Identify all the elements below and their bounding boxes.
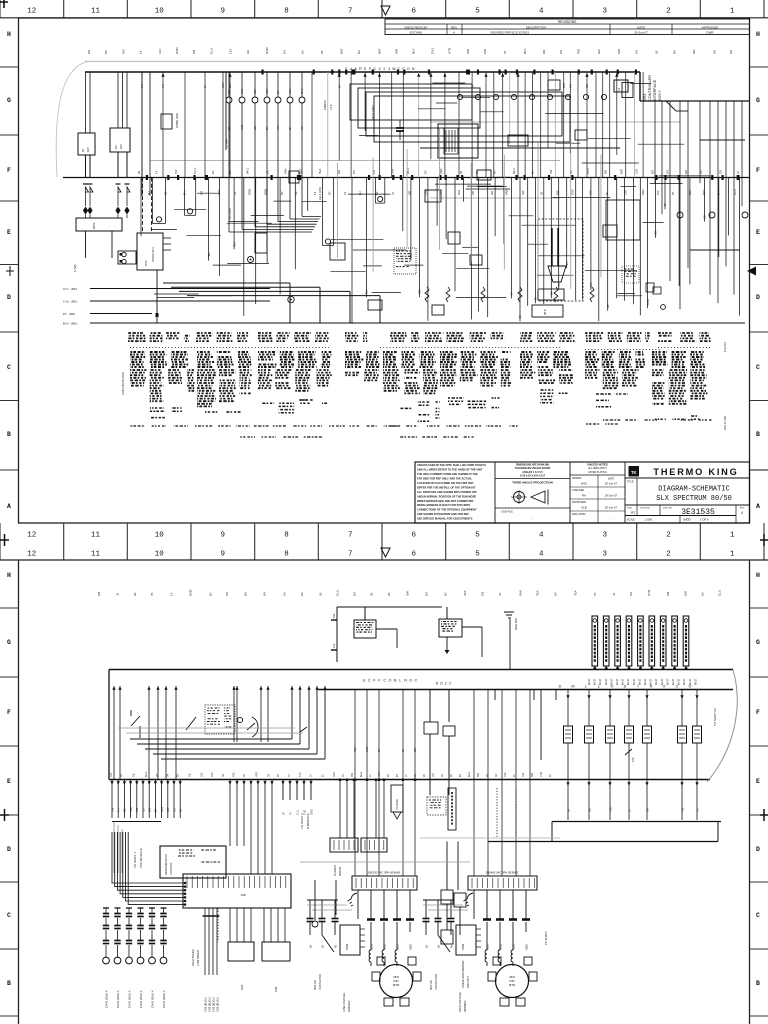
svg-text:O: O <box>409 679 412 683</box>
svg-text:5: 5 <box>475 551 480 559</box>
svg-text:CH3 (BLK) 2: CH3 (BLK) 2 <box>203 997 207 1012</box>
svg-text:X.XX 0.25 X.XXX 0.127: X.XX 0.25 X.XXX 0.127 <box>520 474 546 477</box>
svg-text:RLY: RLY <box>86 147 90 152</box>
svg-text:FAN: FAN <box>161 807 164 812</box>
svg-text:8A-2: 8A-2 <box>512 168 516 174</box>
svg-text:7: 7 <box>348 551 353 559</box>
svg-text:14: 14 <box>313 191 317 195</box>
svg-text:UNLESS NOTED: UNLESS NOTED <box>587 463 607 467</box>
svg-text:7EA: 7EA <box>130 807 133 812</box>
svg-text:CH41 (BLK) 4: CH41 (BLK) 4 <box>104 990 108 1008</box>
svg-text:SCALE: SCALE <box>627 519 635 522</box>
svg-text:380/460 VAC 3PH 50/60HZ: 380/460 VAC 3PH 50/60HZ <box>486 871 519 875</box>
svg-text:8A-27: 8A-27 <box>655 678 658 685</box>
svg-text:DWG APPD: DWG APPD <box>572 513 586 516</box>
svg-text:SW: SW <box>521 190 525 195</box>
svg-text:CB: CB <box>142 808 145 812</box>
svg-text:G: G <box>7 639 11 646</box>
svg-text:7EA: 7EA <box>609 807 612 812</box>
svg-text:A: A <box>453 31 455 35</box>
svg-text:MOTOR: MOTOR <box>339 867 342 876</box>
svg-text:PH: PH <box>569 84 573 88</box>
svg-text:12V: 12V <box>158 49 162 54</box>
svg-text:29: 29 <box>459 170 463 174</box>
svg-text:SEE SERVICE MANUAL FOR ADJUSTM: SEE SERVICE MANUAL FOR ADJUSTMENTS <box>417 517 473 521</box>
svg-text:P7A: P7A <box>144 260 148 266</box>
svg-text:SIZE: SIZE <box>627 508 632 510</box>
svg-text:PH: PH <box>559 50 563 54</box>
svg-text:F: F <box>7 709 11 716</box>
svg-text:29-Jun-07: 29-Jun-07 <box>605 494 618 498</box>
svg-text:CONTROLLER: CONTROLLER <box>648 75 652 101</box>
svg-text:REFRIGERATION: REFRIGERATION <box>164 854 168 875</box>
svg-text:7EA: 7EA <box>207 252 211 257</box>
svg-text:J2: J2 <box>736 171 740 174</box>
svg-text:CLU: CLU <box>296 810 299 815</box>
svg-text:E: E <box>756 778 760 785</box>
svg-text:N: N <box>412 67 415 71</box>
svg-text:11: 11 <box>91 551 101 559</box>
svg-text:4: 4 <box>379 67 381 71</box>
svg-text:CLU: CLU <box>209 48 213 54</box>
svg-text:7: 7 <box>348 8 353 16</box>
svg-text:76: 76 <box>503 50 507 54</box>
svg-text:CB: CB <box>188 773 191 777</box>
svg-text:HIGH VOLTAGE: HIGH VOLTAGE <box>458 992 462 1012</box>
svg-text:8A-27: 8A-27 <box>683 678 686 685</box>
svg-text:MOV: MOV <box>92 222 96 229</box>
svg-text:11: 11 <box>91 532 101 540</box>
svg-text:8A-27: 8A-27 <box>694 678 697 685</box>
svg-text:CH41 (BLK) 4: CH41 (BLK) 4 <box>150 990 154 1008</box>
svg-text:8H: 8H <box>358 191 362 195</box>
svg-text:P2A: P2A <box>240 985 244 990</box>
svg-text:CONNECTIONS OF THE OPTIONAL EQ: CONNECTIONS OF THE OPTIONAL EQUIPMENT <box>417 508 477 512</box>
svg-text:1PA: 1PA <box>632 757 635 762</box>
svg-text:N: N <box>404 679 407 683</box>
svg-text:7EA: 7EA <box>391 169 395 174</box>
svg-text:K9: K9 <box>294 191 298 195</box>
svg-text:C/W (NO): C/W (NO) <box>63 300 78 304</box>
svg-text:A: A <box>7 503 11 510</box>
svg-text:W2: W2 <box>542 49 546 54</box>
svg-text:FSCM NO: FSCM NO <box>640 508 650 510</box>
svg-text:BAT: BAT <box>167 807 170 812</box>
svg-text:THERMO KING: THERMO KING <box>653 467 738 477</box>
svg-text:24A: 24A <box>333 613 336 618</box>
svg-text:WIRES MARKED (NO) ARE NOT CONN: WIRES MARKED (NO) ARE NOT CONNECTED <box>417 499 474 503</box>
svg-text:5C: 5C <box>605 191 609 195</box>
svg-text:14: 14 <box>169 592 173 596</box>
svg-text:5: 5 <box>475 8 480 16</box>
svg-text:APPROVED: APPROVED <box>702 25 720 29</box>
svg-text:2A: 2A <box>567 809 570 812</box>
svg-text:8H: 8H <box>459 774 462 777</box>
svg-text:K9: K9 <box>246 50 250 54</box>
svg-text:FAN: FAN <box>333 772 336 777</box>
svg-text:5: 5 <box>475 532 480 540</box>
svg-text:B: B <box>756 431 760 438</box>
svg-text:K9: K9 <box>569 170 573 174</box>
svg-text:2: 2 <box>666 532 671 540</box>
svg-text:8: 8 <box>284 551 289 559</box>
svg-text:6: 6 <box>412 8 417 16</box>
svg-text:11: 11 <box>91 8 101 16</box>
svg-text:GR: GR <box>603 170 607 174</box>
svg-text:A1: A1 <box>631 511 635 515</box>
svg-text:MOTOR: MOTOR <box>429 980 433 990</box>
svg-text:PH: PH <box>225 592 229 596</box>
svg-text:2A: 2A <box>282 592 286 596</box>
svg-text:8A-27: 8A-27 <box>633 678 636 685</box>
svg-text:P7 DRIVE: P7 DRIVE <box>396 799 399 810</box>
svg-text:RLY: RLY <box>110 772 113 777</box>
svg-text:8A-27: 8A-27 <box>605 678 608 685</box>
svg-text:K9: K9 <box>635 50 639 54</box>
svg-text:LOCATION OF EACH WIRE ON THE U: LOCATION OF EACH WIRE ON THE UNIT MAY <box>417 481 474 485</box>
svg-text:ALL DIMS APPLY: ALL DIMS APPLY <box>588 467 607 470</box>
svg-text:GR: GR <box>684 170 688 174</box>
svg-text:9: 9 <box>221 8 226 16</box>
svg-text:D: D <box>7 294 11 301</box>
svg-text:FAN: FAN <box>283 169 287 174</box>
svg-text:RLY: RLY <box>412 48 416 54</box>
svg-text:GR: GR <box>432 773 435 777</box>
svg-text:AFTER PLATING: AFTER PLATING <box>588 471 607 474</box>
svg-text:FAR SIDE FOR REF ONLY AND THE: FAR SIDE FOR REF ONLY AND THE ACTUAL <box>417 477 473 481</box>
svg-text:TOLERANCES UNLESS NOTED: TOLERANCES UNLESS NOTED <box>515 467 551 470</box>
svg-text:K1: K1 <box>81 148 85 152</box>
svg-text:REVISED PER ECO E37821: REVISED PER ECO E37821 <box>491 31 530 35</box>
svg-text:DIAGRAM-SCHEMATIC: DIAGRAM-SCHEMATIC <box>658 486 729 494</box>
svg-text:1: 1 <box>730 532 735 540</box>
svg-text:CAD FILE: CAD FILE <box>501 510 513 514</box>
svg-text:A/C (NO): A/C (NO) <box>63 287 78 291</box>
svg-text:8H: 8H <box>180 809 183 812</box>
svg-text:12V: 12V <box>254 125 257 130</box>
svg-text:J2: J2 <box>612 593 616 597</box>
svg-text:D4: D4 <box>283 50 287 54</box>
svg-text:O: O <box>440 682 443 686</box>
svg-text:BLOWER: BLOWER <box>334 865 337 876</box>
svg-text:DIMENSIONS ARE IN MM (IN): DIMENSIONS ARE IN MM (IN) <box>516 464 549 467</box>
svg-text:AND ALL WIRES REFER TO THE HAR: AND ALL WIRES REFER TO THE HARN OF THE U… <box>417 468 483 472</box>
svg-text:E: E <box>7 778 11 785</box>
svg-text:CLU: CLU <box>336 590 340 596</box>
svg-text:TITLE: TITLE <box>627 481 634 484</box>
svg-text:WJS: WJS <box>581 482 587 486</box>
svg-text:-: - <box>584 518 585 522</box>
svg-text:29: 29 <box>133 592 137 596</box>
svg-text:CB: CB <box>696 808 699 812</box>
svg-text:8H: 8H <box>673 50 677 54</box>
svg-text:AND IN NORMAL POSITION OF THE: AND IN NORMAL POSITION OF THE RUN MODE <box>417 494 476 498</box>
svg-text:RA: RA <box>582 494 586 498</box>
svg-text:29-Jun-07: 29-Jun-07 <box>634 31 648 35</box>
svg-text:HTR: HTR <box>265 89 269 94</box>
svg-text:29: 29 <box>137 170 141 174</box>
svg-text:14: 14 <box>343 191 347 195</box>
svg-text:LVL1 (XD): LVL1 (XD) <box>318 187 322 200</box>
svg-text:D: D <box>624 685 627 689</box>
svg-text:GR: GR <box>651 170 655 174</box>
svg-text:7EA: 7EA <box>504 772 507 777</box>
svg-text:1: 1 <box>730 551 735 559</box>
svg-text:TO SHIFT 04: TO SHIFT 04 <box>713 708 717 726</box>
svg-text:29: 29 <box>387 592 391 596</box>
svg-text:CH2: CH2 <box>431 48 435 54</box>
svg-text:FRESH AIR DAMPER: FRESH AIR DAMPER <box>461 960 465 988</box>
svg-text:8: 8 <box>284 8 289 16</box>
svg-text:PH: PH <box>161 84 165 88</box>
svg-text:BAT: BAT <box>136 807 139 812</box>
svg-text:9: 9 <box>221 532 226 540</box>
svg-text:SW: SW <box>549 169 553 174</box>
svg-text:DATE: DATE <box>637 25 645 29</box>
svg-text:TO SHAFT: TO SHAFT <box>544 931 548 945</box>
svg-text:P5M: P5M <box>461 943 465 950</box>
svg-text:41A: 41A <box>333 643 336 648</box>
svg-text:CH41 (BLK) 4: CH41 (BLK) 4 <box>139 990 143 1008</box>
svg-text:SR3: SR3 <box>643 94 647 101</box>
svg-text:GND: GND <box>265 47 269 55</box>
svg-text:ANGLES 1 X.X 0.5: ANGLES 1 X.X 0.5 <box>522 471 543 474</box>
svg-text:GND: GND <box>241 124 244 130</box>
svg-text:B: B <box>756 980 760 987</box>
svg-text:F (W): F (W) <box>73 265 77 273</box>
svg-text:HTR: HTR <box>255 772 258 777</box>
svg-text:H: H <box>756 31 760 38</box>
svg-text:B MODULE: B MODULE <box>306 813 310 829</box>
svg-text:NEG BAT: NEG BAT <box>514 618 518 630</box>
svg-text:7EA: 7EA <box>463 590 467 596</box>
svg-text:1888/RD: 1888/RD <box>324 100 327 110</box>
svg-text:7: 7 <box>348 532 353 540</box>
svg-text:7K: 7K <box>671 191 675 195</box>
svg-text:K9: K9 <box>263 592 267 596</box>
svg-text:12: 12 <box>27 532 36 540</box>
svg-text:D: D <box>7 846 11 853</box>
svg-text:D: D <box>756 294 760 301</box>
svg-text:TOP MODULE: TOP MODULE <box>139 848 143 868</box>
svg-text:MTR: MTR <box>393 983 400 987</box>
svg-text:8A-2: 8A-2 <box>145 771 148 777</box>
svg-text:GR: GR <box>490 191 494 195</box>
svg-text:B: B <box>7 431 11 438</box>
svg-text:EF: EF <box>300 592 304 596</box>
svg-text:7EA: 7EA <box>233 772 236 777</box>
svg-text:GR: GR <box>646 808 649 812</box>
svg-text:CONTROL: CONTROL <box>169 862 173 875</box>
svg-text:EF: EF <box>282 811 285 815</box>
svg-text:REVISIONS: REVISIONS <box>558 20 577 24</box>
svg-text:RLY: RLY <box>119 144 123 149</box>
svg-text:29-Jun-07: 29-Jun-07 <box>605 506 618 510</box>
svg-text:3: 3 <box>603 551 608 559</box>
svg-text:14: 14 <box>155 170 159 174</box>
svg-text:76: 76 <box>498 592 502 596</box>
svg-text:3: 3 <box>603 532 608 540</box>
svg-text:CB: CB <box>481 592 485 596</box>
svg-text:MTR: MTR <box>543 309 547 315</box>
svg-text:SW: SW <box>406 591 410 596</box>
svg-text:5C: 5C <box>327 191 331 195</box>
svg-text:14B: 14B <box>241 893 246 897</box>
svg-text:2: 2 <box>666 551 671 559</box>
svg-text:2A: 2A <box>177 774 180 777</box>
svg-text:C: C <box>756 364 760 371</box>
svg-text:4: 4 <box>741 511 743 515</box>
svg-text:8A-27: 8A-27 <box>588 678 591 685</box>
svg-text:8A-2: 8A-2 <box>360 771 363 777</box>
svg-text:H: H <box>7 572 11 579</box>
svg-text:K2: K2 <box>114 145 118 149</box>
svg-text:PH: PH <box>534 297 538 301</box>
svg-text:GND: GND <box>310 809 313 815</box>
svg-text:-: - <box>532 516 533 520</box>
svg-text:G: G <box>756 639 760 646</box>
svg-text:76: 76 <box>150 592 154 596</box>
svg-text:SLX SPECTRUM 80/50: SLX SPECTRUM 80/50 <box>656 495 732 503</box>
svg-text:PW: PW <box>483 49 487 54</box>
svg-text:7EA: 7EA <box>353 747 357 752</box>
svg-text:A5B2: A5B2 <box>410 943 413 950</box>
svg-text:H: H <box>7 31 11 38</box>
svg-text:D: D <box>559 685 562 689</box>
svg-text:DATE: DATE <box>608 477 614 480</box>
svg-text:2A: 2A <box>203 85 207 88</box>
svg-text:O: O <box>407 67 410 71</box>
svg-text:GND: GND <box>646 299 650 305</box>
svg-text:W2: W2 <box>692 49 696 54</box>
svg-text:PW: PW <box>656 190 660 195</box>
svg-text:HTR: HTR <box>221 83 225 88</box>
svg-text:200/230V: 200/230V <box>347 1000 351 1012</box>
svg-text:SW: SW <box>466 49 470 54</box>
svg-text:2A: 2A <box>120 774 123 777</box>
svg-text:2A: 2A <box>700 592 704 596</box>
svg-text:HIGH SPEED: HIGH SPEED <box>191 949 195 966</box>
svg-text:5C: 5C <box>703 215 707 218</box>
svg-text:CONTACTOR: CONTACTOR <box>434 974 438 990</box>
svg-text:K9: K9 <box>712 50 716 54</box>
svg-text:M: M <box>571 685 574 689</box>
svg-text:7K: 7K <box>342 774 345 777</box>
svg-text:W2: W2 <box>666 169 670 174</box>
svg-text:B: B <box>394 679 397 683</box>
svg-text:L: L <box>399 679 401 683</box>
svg-text:GND: GND <box>248 189 252 195</box>
svg-text:DWG NO: DWG NO <box>663 508 673 510</box>
svg-text:2: 2 <box>666 8 671 16</box>
svg-text:29-Jun-07: 29-Jun-07 <box>605 482 618 486</box>
svg-text:G: G <box>756 97 760 104</box>
svg-text:1: 1 <box>730 8 735 16</box>
svg-text:CLU: CLU <box>240 89 244 94</box>
svg-text:7EA: 7EA <box>457 190 461 195</box>
svg-text:SD CRA7: SD CRA7 <box>228 207 232 220</box>
svg-text:SW: SW <box>683 591 687 596</box>
svg-text:7EA: 7EA <box>227 89 231 94</box>
svg-text:12 SHA: 12 SHA <box>225 139 229 148</box>
svg-text:THIRD ANGLE PROJECTION: THIRD ANGLE PROJECTION <box>512 481 553 485</box>
svg-text:V01-C=100: V01-C=100 <box>723 415 727 430</box>
svg-text:8A-2: 8A-2 <box>406 168 410 174</box>
svg-text:J2: J2 <box>391 192 395 195</box>
svg-text:8A-27: 8A-27 <box>594 678 597 685</box>
svg-text:4: 4 <box>539 8 544 16</box>
svg-text:THE HIGH CURRENT CONN ARE SHOW: THE HIGH CURRENT CONN ARE SHOWN AT THE <box>417 472 478 476</box>
svg-text:E: E <box>7 229 11 236</box>
svg-text:7EA: 7EA <box>536 590 540 596</box>
svg-text:3: 3 <box>603 8 608 16</box>
svg-text:2A: 2A <box>300 50 304 54</box>
svg-text:C: C <box>676 685 679 689</box>
svg-text:14: 14 <box>139 50 143 54</box>
svg-text:SW: SW <box>617 49 621 54</box>
svg-text:C: C <box>383 679 386 683</box>
svg-text:CH41 (BLK) 4: CH41 (BLK) 4 <box>162 990 166 1008</box>
svg-text:K9: K9 <box>87 50 91 54</box>
svg-text:29: 29 <box>540 191 544 195</box>
svg-text:TK: TK <box>631 470 637 475</box>
svg-text:12V: 12V <box>228 49 232 54</box>
svg-text:W2: W2 <box>413 748 417 752</box>
svg-text:12: 12 <box>27 551 36 559</box>
svg-text:W2: W2 <box>588 808 591 812</box>
svg-text:REV: REV <box>451 25 457 29</box>
svg-text:12V: 12V <box>201 772 204 777</box>
svg-text:10: 10 <box>155 532 165 540</box>
svg-text:12: 12 <box>27 8 36 16</box>
svg-text:FAN: FAN <box>518 590 522 596</box>
svg-text:B/U (NO): B/U (NO) <box>63 322 78 326</box>
svg-text:N: N <box>650 685 653 689</box>
svg-text:I.B.B.: I.B.B. <box>330 104 333 110</box>
svg-text:CH41 (BLK) 4: CH41 (BLK) 4 <box>116 990 120 1008</box>
svg-text:FAN: FAN <box>562 83 566 88</box>
svg-text:FAN: FAN <box>439 169 443 174</box>
svg-text:I: I <box>637 685 638 689</box>
svg-text:ALL SWITCHES ARE SHOWN WITH PO: ALL SWITCHES ARE SHOWN WITH POWER OFF <box>417 490 477 494</box>
svg-text:GR: GR <box>585 84 589 88</box>
svg-text:CH2: CH2 <box>540 772 543 777</box>
svg-text:HTR: HTR <box>288 89 292 94</box>
svg-text:8A-27: 8A-27 <box>644 678 647 685</box>
svg-text:CAB (NO) BLOCK: CAB (NO) BLOCK <box>121 372 125 395</box>
svg-text:RLY: RLY <box>365 289 369 294</box>
svg-text:R: R <box>359 67 362 71</box>
svg-text:12V: 12V <box>635 169 639 174</box>
svg-text:7EA: 7EA <box>211 772 214 777</box>
svg-text:C4JJJ1: C4JJJ1 <box>723 342 727 352</box>
svg-text:4: 4 <box>539 532 544 540</box>
svg-text:BACK (MO): BACK (MO) <box>371 105 375 120</box>
svg-text:C: C <box>7 912 11 919</box>
svg-text:H: H <box>756 572 760 579</box>
svg-text:ARE SHOWN IN PHANTOM LINE FOR: ARE SHOWN IN PHANTOM LINE FOR REF <box>417 512 469 516</box>
svg-text:12V: 12V <box>522 772 525 777</box>
svg-text:O: O <box>389 679 392 683</box>
svg-text:EF: EF <box>424 170 428 174</box>
svg-text:9: 9 <box>221 551 226 559</box>
svg-text:12V: 12V <box>149 807 152 812</box>
svg-text:1:000: 1:000 <box>645 518 652 522</box>
svg-text:CH41 (BLK) 4: CH41 (BLK) 4 <box>127 990 131 1008</box>
svg-text:P7 (NO): P7 (NO) <box>63 312 76 316</box>
svg-text:TO SHIFT 1: TO SHIFT 1 <box>133 852 137 868</box>
svg-text:F1: F1 <box>617 87 621 91</box>
